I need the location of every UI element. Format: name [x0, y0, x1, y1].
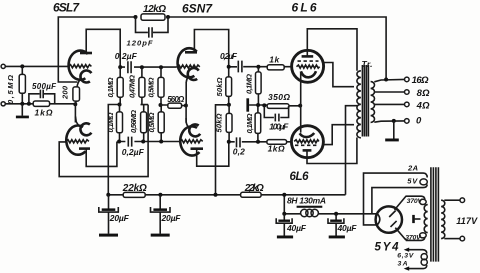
resistor 350Ω (cathode bias 6L6)	[267, 92, 290, 109]
svg-text:50kΩ: 50kΩ	[215, 77, 224, 96]
node 500µF branch left	[27, 102, 31, 106]
wire col3 to 560Ω	[161, 104, 186, 107]
svg-text:22kΩ: 22kΩ	[122, 183, 147, 194]
power transformer core	[431, 167, 439, 261]
node 22k right	[158, 193, 162, 197]
resistor 50kΩ (plate load 6SN7b)	[215, 105, 233, 142]
svg-text:0: 0	[416, 116, 422, 127]
resistor 0.5MΩ (divider top right)	[147, 67, 164, 105]
wire 6SL7a plate to coupling node	[86, 29, 120, 67]
resistor 0.56MΩ (divider bottom)	[129, 110, 146, 142]
wire 117V top	[444, 199, 460, 201]
triode 6SL7b plate	[79, 147, 90, 150]
triode 6SN7b envelope	[180, 126, 199, 155]
tube 6L6 II screen grid (dashed)	[295, 144, 318, 146]
svg-text:4Ω: 4Ω	[416, 100, 431, 111]
svg-text:40µF: 40µF	[337, 223, 358, 233]
node 22k left	[106, 193, 110, 197]
node top of 0.47M	[140, 65, 144, 69]
wire 6SN7a plate loop to coupling node	[194, 30, 228, 67]
wire bias row	[249, 104, 300, 107]
node 0.5Mb bottom	[159, 140, 163, 144]
terminal 8Ω	[405, 90, 410, 95]
svg-text:2A: 2A	[407, 164, 418, 173]
wire 6L6 II screen to primary tap	[323, 125, 354, 145]
triode 6SN7a envelope	[178, 48, 197, 77]
node 12k left	[134, 15, 138, 19]
wire cathode node down to 6SL7b cathode	[74, 104, 76, 122]
resistor 0.1MΩ (lower, plate load 6SL7b)	[106, 105, 123, 142]
wire 1k to cathode node	[50, 103, 76, 105]
wire upper coupling row to 1k	[229, 66, 292, 68]
node 6SN7b plate	[227, 140, 231, 144]
node 350 left	[262, 103, 266, 107]
svg-text:0,2µF: 0,2µF	[115, 51, 138, 61]
rectifier 5Y4 filament	[377, 214, 380, 225]
capacitor 0.2µF (coupling 6SL7b to 6SN7b)	[122, 136, 145, 158]
rectifier 5Y4 plate 1	[389, 211, 396, 218]
transformer 117V primary winding	[441, 200, 445, 238]
svg-text:0,2µF: 0,2µF	[122, 147, 145, 157]
node top of 0.5M	[159, 65, 163, 69]
svg-text:117V: 117V	[456, 216, 478, 226]
triode 6SL7a grid	[69, 65, 92, 68]
svg-text:1kΩ: 1kΩ	[268, 143, 285, 153]
wire B+ to choke row	[283, 195, 285, 214]
tube 6L6 II plate	[303, 149, 312, 152]
resistor 1kΩ (grid stopper 6L6 II)	[267, 140, 287, 154]
node at 0.5M top	[20, 64, 24, 68]
node 6SN7a plate	[227, 65, 231, 69]
node plate 6SL7b	[117, 140, 121, 144]
resistor 1k (grid stopper 6L6 I)	[267, 55, 284, 70]
svg-text:200: 200	[61, 85, 70, 100]
svg-text:6,3V: 6,3V	[397, 252, 414, 259]
wire 6SL7a cathode to 200Ω	[74, 101, 77, 104]
triode 6SN7b plate	[191, 147, 204, 150]
resistor 12kΩ (feedback)	[141, 4, 166, 20]
svg-text:20µF: 20µF	[161, 213, 182, 223]
wire 370V top	[406, 196, 425, 199]
wire 16Ω tap	[374, 79, 404, 81]
svg-text:8H 130mA: 8H 130mA	[287, 196, 326, 206]
node col1 mid	[118, 103, 122, 107]
wire B+ row (22k / 2.2k)	[108, 194, 345, 196]
node 50k junction	[227, 103, 231, 107]
resistor 200Ω (shared cathode)	[61, 85, 80, 101]
wire 6L6 I screen to primary tap	[323, 63, 354, 87]
resistor 0.1MΩ (grid leak 6L6 II)	[245, 105, 261, 142]
node 6SN7 cathodes	[184, 104, 188, 108]
triode 6SL7a cathode	[77, 70, 91, 87]
input jack J1 (top)	[1, 64, 5, 68]
node 12k right	[166, 15, 170, 19]
tube 6L6 I plate	[302, 55, 314, 58]
svg-text:12kΩ: 12kΩ	[143, 4, 166, 15]
capacitor 120pF (across 12k)	[127, 17, 169, 47]
node 40µF 2	[334, 212, 338, 216]
node 0.56M bottom	[141, 140, 145, 144]
wire 5Y4 plate 2 to 370V bottom	[395, 228, 406, 240]
wire 6.3V top with arrow	[404, 248, 427, 254]
wire 6SL7b plate loop to lower coupling node	[86, 142, 117, 167]
wire lower 0.2µF row to 6SN7b grid	[119, 141, 180, 143]
svg-text:0,5MΩ: 0,5MΩ	[147, 77, 156, 97]
svg-text:0,1MΩ: 0,1MΩ	[245, 113, 254, 133]
capacitor 500µF (cathode bypass)	[29, 82, 57, 104]
svg-text:120pF: 120pF	[127, 38, 153, 47]
ground bar (bias return)	[246, 98, 249, 111]
capacitor 20µF (filter 1)	[99, 195, 130, 237]
tube 6L6 I screen grid (dashed)	[298, 60, 319, 62]
transformer HV winding	[420, 199, 428, 238]
capacitor 0.2 (coupling 6SN7b to 6L6 II)	[233, 137, 245, 156]
node grid leak 6L6 II	[256, 140, 260, 144]
svg-text:0,1MΩ: 0,1MΩ	[106, 77, 115, 97]
wire 6SN7a cathode down to node	[185, 82, 187, 106]
svg-text:0,2µF: 0,2µF	[220, 51, 238, 61]
svg-text:20µF: 20µF	[109, 213, 130, 223]
svg-text:16Ω: 16Ω	[412, 75, 430, 86]
triode 6SL7b cathode (top, flipped)	[76, 117, 92, 136]
wire 8Ω tap	[374, 91, 404, 93]
rectifier 5Y4 plate 2	[391, 221, 397, 227]
node B+ choke feed	[282, 193, 286, 197]
wire 117V bottom	[444, 238, 460, 240]
wire B+ branch to 22k (left drop)	[108, 105, 119, 195]
svg-text:5V: 5V	[407, 177, 418, 186]
terminal 117V top	[460, 198, 465, 203]
svg-text:0,1MΩ: 0,1MΩ	[244, 74, 253, 94]
rectifier 5Y4 envelope	[376, 206, 402, 232]
tube 6L6 II envelope	[291, 126, 323, 158]
capacitor 40µF (filter A)	[276, 214, 307, 239]
ground (input)	[16, 104, 29, 118]
triode 6SL7b grid	[66, 140, 89, 143]
triode 6SN7a cathode	[186, 68, 199, 83]
svg-text:0,56MΩ: 0,56MΩ	[129, 110, 138, 133]
transformer Tr. secondary winding	[371, 82, 375, 123]
resistor 1kΩ (input cathode)	[33, 101, 53, 118]
node at 0.5M bottom / ground	[20, 102, 24, 106]
resistor 0.1MΩ (plate load 6SL7a)	[106, 67, 123, 104]
wire 5V filament lead joining B+ row	[372, 185, 427, 214]
wire col2 jog	[141, 105, 149, 112]
choke 8H winding loops	[301, 209, 319, 216]
wire lower coupling row to 1kΩ	[229, 141, 292, 143]
wire 6L6 II plate to transformer primary bottom	[307, 138, 357, 164]
terminal 4Ω	[405, 102, 410, 107]
choke 8H core bar	[297, 206, 323, 208]
node col3 mid	[159, 103, 163, 107]
node grid leaks mid	[256, 103, 260, 107]
svg-text:0,47MΩ: 0,47MΩ	[128, 75, 137, 98]
wire plate node row (upper 0.2µF row)	[120, 66, 177, 68]
terminal 16Ω	[405, 77, 410, 82]
svg-text:0,1MΩ: 0,1MΩ	[106, 112, 115, 132]
svg-text:560Ω: 560Ω	[167, 95, 185, 104]
feedback wire from 16Ω tap: top rail, left drop to cathode of 6SL7a	[58, 17, 386, 82]
svg-text:100µF: 100µF	[269, 122, 289, 132]
resistor 2.2kΩ (decoupling)	[241, 183, 264, 198]
svg-text:0,2: 0,2	[233, 147, 245, 157]
svg-text:6L6: 6L6	[290, 171, 310, 183]
resistor 0.47MΩ (divider top)	[128, 67, 145, 104]
resistor 560Ω (hum bias)	[167, 95, 185, 108]
wire 50k node left and down to 2.2k row	[216, 105, 229, 195]
tube 6L6 I cathode	[301, 71, 316, 77]
svg-text:8Ω: 8Ω	[417, 88, 431, 99]
resistor 50kΩ (plate load 6SN7a)	[215, 67, 232, 105]
svg-text:6L6: 6L6	[292, 1, 317, 15]
svg-text:50kΩ: 50kΩ	[215, 113, 224, 132]
node 6SN7 B+ drop	[214, 193, 218, 197]
svg-text:500µF: 500µF	[32, 82, 57, 91]
node plate 6SL7a	[118, 65, 122, 69]
wire jack J2 bottom rail	[5, 103, 33, 105]
node cathodes 6L6	[298, 104, 302, 108]
capacitor 40µF (filter B)	[328, 214, 357, 239]
tube 6L6 I control grid	[297, 65, 320, 68]
terminal 0	[405, 119, 410, 124]
node 40µF 1	[282, 212, 286, 216]
transformer 6.3V winding loops	[421, 254, 427, 266]
ground (secondary 0)	[385, 121, 399, 141]
triode 6SN7a grid	[177, 65, 200, 68]
wire 370V bottom	[406, 237, 425, 240]
tube 6L6 II cathode (top)	[300, 133, 315, 137]
svg-text:1kΩ: 1kΩ	[35, 108, 53, 118]
capacitor 20µF (filter 2)	[151, 195, 182, 237]
HV centre tap bar	[412, 215, 420, 223]
transformer Tr. primary winding	[357, 71, 361, 138]
svg-text:5Y4: 5Y4	[375, 242, 400, 254]
wire primary centre tap to B+	[346, 106, 358, 195]
wire 2A filament lead	[364, 173, 428, 225]
resistor 22kΩ (decoupling)	[122, 183, 147, 198]
triode 6SN7b grid	[180, 140, 203, 143]
wire 6SL7b grid return	[59, 105, 148, 177]
resistor 0.5MΩ (input grid leak)	[6, 66, 26, 104]
capacitor 0.2µF (coupling 6SN7a to 6L6 I)	[220, 51, 242, 72]
transformer Tr. core	[362, 65, 368, 137]
triode 6SN7b cathode (top, flipped)	[186, 118, 200, 136]
wire choke row right to 5Y4 filament	[318, 213, 377, 215]
svg-text:0,5MΩ: 0,5MΩ	[147, 112, 156, 132]
svg-text:3A: 3A	[398, 261, 408, 268]
wire 0 tap	[374, 121, 404, 122]
node ground at 0 tap	[392, 119, 396, 123]
terminal 117V bottom	[460, 236, 465, 241]
node feedback at 16Ω	[384, 78, 388, 82]
resistor 0.1MΩ (grid leak 6L6 I)	[244, 67, 261, 105]
wire 6SN7b plate loop to lower coupling node	[197, 142, 229, 166]
wire 4Ω tap	[374, 103, 404, 105]
svg-text:6SL7: 6SL7	[53, 1, 80, 15]
node grid leak 6L6 I	[256, 65, 260, 69]
node cathode network	[73, 102, 77, 106]
triode 6SL7a plate	[80, 52, 92, 55]
triode 6SL7a envelope	[69, 51, 88, 80]
svg-text:350Ω: 350Ω	[268, 92, 290, 102]
wire 6L6 I cathode down to common node and 6L6 II cathode	[300, 72, 302, 133]
tube 6L6 I envelope	[292, 50, 324, 82]
svg-text:40µF: 40µF	[286, 223, 307, 233]
svg-text:6SN7: 6SN7	[182, 2, 213, 16]
triode 6SN7a plate	[185, 51, 197, 54]
resistor 0.5MΩ (lower right)	[147, 105, 164, 142]
capacitor 100µF (cathode bypass 6L6)	[264, 105, 289, 131]
tube 6L6 II control grid	[294, 140, 319, 143]
svg-text:1k: 1k	[269, 55, 280, 65]
wire 6L6 I plate to transformer primary top	[307, 29, 357, 71]
wire 6.3V bottom with arrow	[404, 265, 427, 271]
wire 5Y4 plate 1 to 370V top	[395, 196, 406, 210]
wire choke row left	[284, 213, 300, 215]
wire jack J1 to grid of 6SL7a	[5, 65, 68, 67]
wire 6SN7 cathode node down to 6SN7b cathode	[185, 106, 187, 123]
capacitor 0.2µF (coupling 6SL7a to 6SN7a)	[115, 51, 138, 74]
svg-text:2,2kΩ: 2,2kΩ	[244, 183, 264, 194]
svg-text:370V: 370V	[405, 235, 422, 242]
triode 6SL7b envelope	[66, 126, 85, 155]
input jack J2 (bottom)	[1, 102, 5, 106]
transformer 5V winding loop	[420, 179, 427, 185]
